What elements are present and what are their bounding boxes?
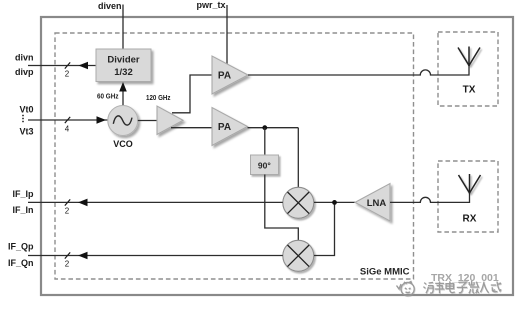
PA1 triangle — [212, 56, 248, 94]
RX antenna symbol — [459, 174, 481, 194]
svg-text:diven: diven — [98, 1, 122, 11]
char che — [435, 281, 445, 293]
wire buffer to PA2 — [171, 127, 212, 129]
svg-text:Vt0: Vt0 — [19, 105, 33, 115]
arrow up into divider — [119, 82, 127, 92]
VCO sine symbol — [113, 116, 132, 125]
svg-text:60 GHz: 60 GHz — [97, 92, 119, 101]
arrow right into VCO — [97, 116, 107, 124]
wire RX to LNA with bond bump — [390, 193, 470, 203]
arrow left on divn/divp — [79, 62, 89, 70]
svg-text:2: 2 — [65, 70, 70, 79]
watermark text (stylized CJK strokes) — [423, 281, 501, 293]
TX antenna symbol — [458, 47, 480, 67]
svg-text:SiGe MMIC: SiGe MMIC — [360, 267, 410, 278]
svg-text:IF_Qp: IF_Qp — [8, 242, 34, 252]
char dian — [446, 281, 455, 292]
svg-text:IF_Ip: IF_Ip — [12, 189, 34, 199]
bus slash divn/divp — [65, 62, 70, 68]
wire IF_I bus — [28, 201, 283, 203]
svg-text:LNA: LNA — [367, 198, 387, 209]
90 degree phase shifter box — [251, 155, 279, 175]
svg-text:4: 4 — [65, 125, 70, 134]
svg-text:PA: PA — [218, 122, 231, 133]
buffer amp triangle — [157, 106, 183, 135]
vertical dots — [22, 115, 24, 123]
svg-text:Vt3: Vt3 — [19, 127, 33, 137]
char zi — [457, 282, 467, 293]
divider U2 box — [96, 49, 151, 82]
svg-text:IF_Qn: IF_Qn — [8, 258, 34, 268]
wire PA2 output to LO node — [248, 127, 299, 129]
svg-text:1/32: 1/32 — [114, 67, 133, 78]
PA2 triangle — [212, 108, 248, 146]
char ru — [480, 282, 488, 293]
svg-text:Divider: Divider — [107, 55, 140, 66]
SiGe MMIC chip dashed boundary — [55, 33, 414, 279]
svg-text:IF_In: IF_In — [12, 205, 33, 215]
mixer I — [283, 187, 314, 218]
char shi — [491, 281, 501, 291]
arrow left on IF_Q — [78, 252, 88, 260]
LNA triangle — [355, 184, 390, 222]
wire Vt bus — [28, 119, 108, 121]
RX antenna dashed box — [438, 161, 498, 232]
char qian — [469, 281, 479, 293]
bus slash Vt — [65, 117, 70, 123]
wire LO to mixer1 — [297, 128, 299, 188]
svg-text:90°: 90° — [258, 161, 271, 171]
wire buffer to PA1 — [172, 75, 212, 113]
arrow left on IF_I — [78, 199, 88, 207]
wire LO down to 90 box — [264, 128, 266, 155]
junction dot LNA out — [332, 200, 337, 205]
svg-text:VCO: VCO — [113, 139, 133, 149]
wire PA1 to TX with bond bump — [248, 65, 469, 75]
svg-text:divp: divp — [15, 67, 34, 77]
svg-text:2: 2 — [65, 207, 70, 216]
svg-text:TX: TX — [463, 85, 476, 96]
wire diven — [122, 5, 124, 49]
watermark logo — [397, 282, 415, 296]
bus slash IF_Q — [65, 252, 70, 258]
wire IF_Q bus — [28, 255, 283, 257]
char qi — [423, 282, 433, 293]
wire divn/divp bus — [28, 65, 96, 67]
mixer Q — [283, 240, 314, 271]
svg-text:divn: divn — [15, 53, 34, 63]
svg-text:120 GHz: 120 GHz — [146, 93, 171, 102]
wire VCO to divider — [122, 90, 124, 106]
svg-text:RX: RX — [463, 214, 477, 225]
wire VCO to buffer amp — [138, 120, 158, 122]
watermark shadow copies — [397, 282, 415, 296]
svg-text:PA: PA — [218, 71, 231, 82]
wire 90 box to mixer2 — [265, 175, 299, 241]
junction dot LO — [262, 125, 267, 130]
TX antenna dashed box — [438, 32, 498, 106]
bus slash IF_I — [65, 199, 70, 205]
svg-text:2: 2 — [65, 260, 70, 269]
svg-text:pwr_tx: pwr_tx — [196, 0, 225, 10]
VCO circle — [108, 106, 138, 136]
wire LNA output to mixers — [314, 202, 355, 255]
wire pwr_tx — [226, 5, 228, 64]
